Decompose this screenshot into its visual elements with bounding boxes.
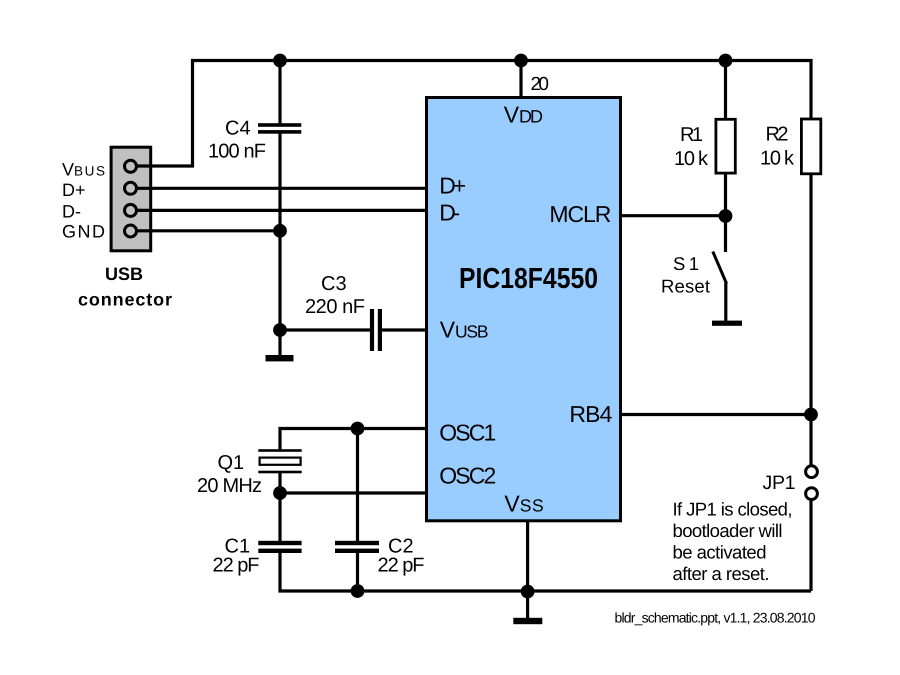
wire C4 bottom plate down through GND/VUSB junctions to ground	[278, 133, 281, 357]
svg-text:20 MHz: 20 MHz	[197, 475, 262, 497]
node OSC1 junction	[351, 422, 365, 436]
svg-text:PIC18F4550: PIC18F4550	[459, 263, 598, 295]
USB connector body	[111, 147, 151, 251]
svg-text:MCLR: MCLR	[549, 201, 611, 227]
svg-text:JP1: JP1	[763, 472, 796, 494]
wire R1 bottom to MCLR node and switch contact	[724, 174, 727, 253]
svg-text:D+: D+	[62, 180, 86, 200]
USB connector pin circle GND	[125, 225, 137, 237]
node VSS ground rail junction	[521, 585, 535, 599]
node MCLR junction	[719, 209, 733, 223]
wire node to C3 left plate	[280, 328, 370, 331]
node C4 top rail junction	[273, 54, 287, 68]
node RB4 JP1 junction	[804, 408, 818, 422]
resistor R2	[801, 119, 820, 174]
node VUSB ground junction	[273, 323, 287, 337]
wire OSC1 node down to C2 top plate	[356, 429, 359, 542]
crystal Q1	[258, 449, 301, 452]
wire R2 bottom through RB4 node to JP1 top	[809, 175, 812, 465]
svg-text:S1: S1	[673, 253, 699, 274]
svg-text:after a reset.: after a reset.	[673, 563, 770, 584]
svg-text:C4: C4	[225, 118, 251, 140]
svg-text:bldr_schematic.ppt, v1.1, 23.0: bldr_schematic.ppt, v1.1, 23.08.2010	[615, 610, 816, 626]
resistor R1	[716, 119, 735, 173]
capacitor C3	[370, 309, 374, 351]
ground below VSS	[513, 618, 542, 624]
svg-text:D-: D-	[439, 200, 460, 226]
svg-text:10 k: 10 k	[760, 148, 795, 170]
svg-text:VBUS: VBUS	[62, 160, 105, 180]
svg-text:10 k: 10 k	[674, 148, 709, 170]
wire top rail to C4 top plate	[278, 61, 281, 125]
wire OSC1 pin to crystal top	[280, 429, 426, 450]
svg-text:be activated: be activated	[673, 542, 767, 563]
svg-text:RB4: RB4	[569, 401, 612, 427]
svg-text:USB: USB	[105, 264, 143, 284]
jumper JP1 circle top	[806, 466, 818, 478]
svg-text:Reset: Reset	[661, 276, 710, 297]
PIC18F4550 IC body U1	[427, 98, 621, 521]
svg-text:D+: D+	[439, 172, 466, 198]
svg-text:100 nF: 100 nF	[208, 141, 266, 163]
svg-text:Q1: Q1	[218, 452, 245, 474]
svg-text:220 nF: 220 nF	[305, 296, 365, 318]
wire VBUS to top rail, top rail, drop to R2	[137, 61, 811, 167]
capacitor C1	[258, 541, 301, 545]
svg-text:If JP1 is closed,: If JP1 is closed,	[673, 499, 793, 520]
svg-text:GND: GND	[62, 222, 105, 242]
svg-text:22 pF: 22 pF	[378, 555, 425, 577]
node R1 top rail junction	[719, 54, 733, 68]
wire OSC2 node to OSC2 pin	[280, 491, 426, 494]
node USB GND junction	[273, 224, 287, 238]
wire JP1 bottom to ground rail	[809, 501, 812, 591]
wire OSC2 node down to C1 top plate	[278, 493, 281, 542]
svg-text:C3: C3	[321, 273, 347, 295]
wire VSS pin to ground rail and ground stub	[526, 521, 529, 618]
wire D- from USB connector to PIC	[137, 209, 426, 212]
ground below C4/GND node	[266, 355, 294, 361]
svg-text:connector: connector	[78, 290, 172, 310]
wire VDD drop from top rail to pin 20	[519, 61, 522, 99]
USB connector pin circle D+	[125, 182, 137, 194]
wire C3 right plate to VUSB pin	[382, 328, 426, 331]
switch S1 arm	[713, 252, 727, 284]
capacitor C4	[258, 123, 301, 127]
ground below switch S1	[712, 321, 742, 326]
wire top rail to R1	[724, 61, 727, 121]
USB connector pin circle D-	[125, 204, 137, 216]
svg-text:bootloader will: bootloader will	[673, 520, 783, 541]
wire crystal bottom to OSC2 node	[278, 472, 281, 494]
wire MCLR pin to node	[621, 214, 726, 217]
wire D+ from USB connector to PIC	[137, 187, 426, 190]
svg-text:R2: R2	[766, 124, 789, 146]
wire RB4 pin to node	[621, 413, 811, 416]
capacitor C2	[335, 541, 379, 545]
svg-text:OSC2: OSC2	[439, 463, 496, 489]
svg-text:OSC1: OSC1	[439, 420, 496, 446]
USB connector pin circle VBUS	[125, 160, 137, 172]
wire ground rail from C1 bottom to JP1 column	[280, 553, 811, 591]
svg-text:20: 20	[531, 74, 550, 95]
svg-text:22 pF: 22 pF	[213, 555, 260, 577]
svg-text:D-: D-	[62, 202, 81, 222]
node C2 ground rail junction	[351, 584, 365, 598]
wire C2 bottom plate to ground rail	[356, 553, 359, 591]
svg-text:R1: R1	[680, 124, 703, 146]
jumper JP1 circle bottom	[806, 488, 818, 500]
node OSC2 junction	[273, 486, 287, 500]
wire GND from USB connector to node	[137, 229, 280, 232]
wire S1 lower contact to ground	[724, 283, 727, 322]
node VDD top rail junction	[514, 54, 528, 68]
